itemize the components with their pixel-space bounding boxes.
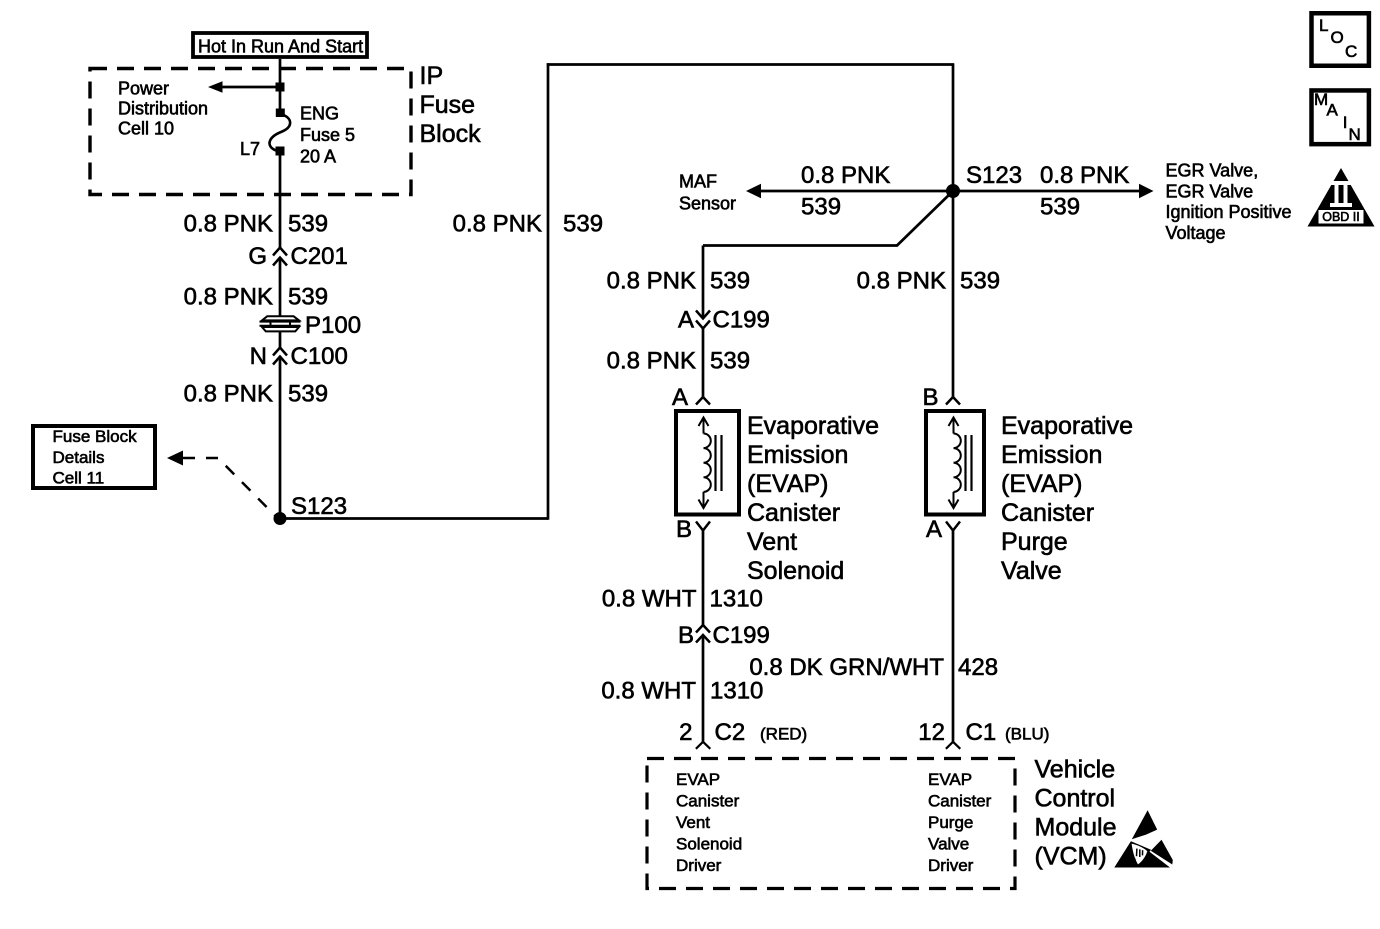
wire: left riser up bbox=[547, 63, 550, 520]
solenoid U1: EVAP canister vent solenoid bbox=[676, 411, 739, 515]
wire label 0.8 PNK 539 (left riser) bbox=[453, 211, 603, 238]
svg-text:0.8 WHT: 0.8 WHT bbox=[602, 586, 697, 613]
svg-text:0.8 PNK: 0.8 PNK bbox=[801, 162, 890, 189]
svg-text:539: 539 bbox=[710, 268, 750, 295]
wire label 0.8 PNK 539 (fuse output) bbox=[184, 211, 328, 238]
ESD sensitivity symbol bbox=[1114, 810, 1173, 867]
svg-text:C100: C100 bbox=[291, 343, 348, 370]
splice S123 (top right) bbox=[946, 162, 1022, 198]
wire: diagonal from S123 to EVAP vent branch bbox=[703, 191, 953, 246]
symbol: OBD II triangle bbox=[1308, 168, 1375, 227]
junction square at fuse feed bbox=[276, 83, 285, 92]
svg-text:S123: S123 bbox=[966, 162, 1022, 189]
svg-text:539: 539 bbox=[960, 268, 1000, 295]
svg-text:O: O bbox=[1331, 28, 1344, 47]
wire label 0.8 PNK 539 (MAF branch) bbox=[801, 162, 890, 221]
wire: arrow feed to Power Distribution bbox=[220, 86, 280, 89]
wire label 0.8 PNK 539 (EGR branch) bbox=[1040, 162, 1129, 221]
wire label 0.8 PNK 539 (below C199) bbox=[607, 348, 750, 375]
wire label 0.8 PNK 539 (purge branch) bbox=[857, 268, 1000, 295]
arrow to Power Distribution bbox=[208, 81, 223, 92]
svg-text:B: B bbox=[678, 622, 694, 649]
svg-text:1310: 1310 bbox=[710, 678, 763, 705]
wire: branch down to C199 pin A bbox=[702, 246, 705, 319]
svg-text:I: I bbox=[1343, 113, 1348, 132]
EVAP canister vent solenoid pin A bbox=[672, 384, 710, 411]
svg-text:N: N bbox=[250, 343, 267, 370]
EVAP canister purge valve pin A bbox=[926, 516, 960, 543]
svg-text:C2: C2 bbox=[715, 719, 746, 746]
wire: right riser down to splice S123 top bbox=[952, 65, 955, 192]
connector C201 pin G bbox=[248, 243, 348, 270]
wire label 0.8 WHT 1310 bbox=[602, 586, 763, 613]
EVAP canister vent solenoid pin B bbox=[676, 516, 710, 543]
svg-text:A: A bbox=[926, 516, 942, 543]
EVAP canister purge valve pin B bbox=[922, 384, 960, 411]
wire: C100 down to splice S123 bbox=[279, 357, 282, 519]
wire: C199 to EVAP vent solenoid pin A bbox=[702, 329, 705, 398]
wire label 0.8 PNK 539 (below C100) bbox=[184, 381, 328, 408]
svg-text:N: N bbox=[1349, 125, 1361, 144]
svg-text:539: 539 bbox=[288, 284, 328, 311]
svg-text:428: 428 bbox=[958, 654, 998, 681]
svg-text:L: L bbox=[1319, 16, 1328, 35]
svg-text:539: 539 bbox=[710, 348, 750, 375]
connector C199 pin B bbox=[678, 622, 770, 649]
svg-text:Hot In Run And Start: Hot In Run And Start bbox=[198, 37, 363, 57]
svg-text:539: 539 bbox=[1040, 194, 1080, 221]
svg-text:0.8 PNK: 0.8 PNK bbox=[184, 211, 273, 238]
connector C199 pin A bbox=[678, 307, 770, 334]
svg-text:S123: S123 bbox=[291, 493, 347, 520]
svg-text:0.8 WHT: 0.8 WHT bbox=[601, 678, 696, 705]
fuse ENG Fuse 5 20 A bbox=[269, 109, 290, 156]
svg-text:0.8 PNK: 0.8 PNK bbox=[607, 268, 696, 295]
wire: MAF sensor arrow line bbox=[760, 190, 953, 193]
svg-text:B: B bbox=[676, 516, 692, 543]
label box: Fuse Block Details Cell 11 bbox=[33, 426, 155, 488]
grommet P100 bbox=[260, 312, 362, 339]
wire: EVAP purge valve pin A down to VCM pin 12 bbox=[952, 531, 955, 742]
connector C100 pin N bbox=[250, 343, 348, 370]
wire: C199 pin B down to VCM pin 2 bbox=[702, 635, 705, 742]
wire: EGR valve arrow line bbox=[953, 190, 1141, 193]
wire: EVAP vent solenoid pin B down to C199 pin B bbox=[702, 531, 705, 626]
wire: fuse feed from Hot In Run And Start down to fuse bbox=[279, 59, 282, 111]
wire label 0.8 PNK 539 (vent branch) bbox=[607, 268, 750, 295]
wire: P100 to C100 bbox=[279, 332, 282, 348]
svg-text:A: A bbox=[678, 307, 694, 334]
svg-text:0.8 PNK: 0.8 PNK bbox=[857, 268, 946, 295]
svg-text:C: C bbox=[1345, 42, 1357, 61]
svg-text:P100: P100 bbox=[305, 312, 361, 339]
svg-text:539: 539 bbox=[801, 194, 841, 221]
svg-text:0.8 PNK: 0.8 PNK bbox=[184, 381, 273, 408]
wire label 0.8 WHT 1310 (lower) bbox=[601, 678, 763, 705]
svg-text:0.8 PNK: 0.8 PNK bbox=[1040, 162, 1129, 189]
svg-text:A: A bbox=[672, 384, 688, 411]
wire: fuse output down to C201 bbox=[279, 153, 282, 248]
label box: Hot In Run And Start bbox=[193, 33, 367, 57]
svg-text:539: 539 bbox=[288, 381, 328, 408]
VCM pin 2 connector C2 (RED) bbox=[679, 719, 807, 749]
svg-text:0.8 DK GRN/WHT: 0.8 DK GRN/WHT bbox=[749, 654, 944, 681]
wire label 0.8 PNK 539 (below C201) bbox=[184, 284, 328, 311]
solenoid U2: EVAP canister purge valve bbox=[926, 411, 984, 515]
svg-text:C1: C1 bbox=[966, 719, 997, 746]
wire label 0.8 DK GRN/WHT 428 bbox=[749, 654, 998, 681]
arrow to MAF Sensor bbox=[746, 184, 761, 198]
svg-text:L7: L7 bbox=[240, 139, 260, 159]
splice S123 (left) bbox=[274, 493, 348, 525]
enclosure: IP Fuse Block (dashed) bbox=[90, 69, 411, 195]
svg-text:VehicleControlModule(VCM): VehicleControlModule(VCM) bbox=[1035, 756, 1117, 871]
wire: top horizontal run bbox=[547, 63, 955, 66]
symbol: LOC reference box bbox=[1312, 13, 1369, 66]
svg-text:539: 539 bbox=[288, 211, 328, 238]
svg-text:2: 2 bbox=[679, 719, 692, 746]
svg-text:12: 12 bbox=[918, 719, 945, 746]
enclosure: Vehicle Control Module (dashed) bbox=[647, 759, 1015, 889]
svg-text:0.8 PNK: 0.8 PNK bbox=[184, 284, 273, 311]
svg-text:(RED): (RED) bbox=[760, 725, 807, 744]
svg-text:A: A bbox=[1327, 101, 1339, 120]
arrow to EGR Valve bbox=[1139, 184, 1154, 198]
svg-text:1310: 1310 bbox=[710, 586, 763, 613]
VCM pin 12 connector C1 (BLU) bbox=[918, 719, 1049, 749]
wire: C201 to P100 bbox=[279, 258, 282, 317]
wire: S123 horizontal run to riser bbox=[280, 517, 548, 520]
svg-text:G: G bbox=[248, 243, 267, 270]
svg-text:0.8 PNK: 0.8 PNK bbox=[607, 348, 696, 375]
symbol: MAIN reference box bbox=[1312, 90, 1369, 144]
svg-text:(BLU): (BLU) bbox=[1005, 725, 1049, 744]
svg-text:539: 539 bbox=[563, 211, 603, 238]
dashed leader arrow to Fuse Block Details bbox=[167, 451, 278, 519]
svg-text:C199: C199 bbox=[713, 307, 770, 334]
svg-text:OBD II: OBD II bbox=[1322, 210, 1360, 224]
wire: S123 down to EVAP purge valve pin B bbox=[952, 191, 955, 397]
svg-text:C199: C199 bbox=[713, 622, 770, 649]
svg-text:0.8 PNK: 0.8 PNK bbox=[453, 211, 542, 238]
svg-text:C201: C201 bbox=[291, 243, 348, 270]
svg-text:B: B bbox=[922, 384, 938, 411]
